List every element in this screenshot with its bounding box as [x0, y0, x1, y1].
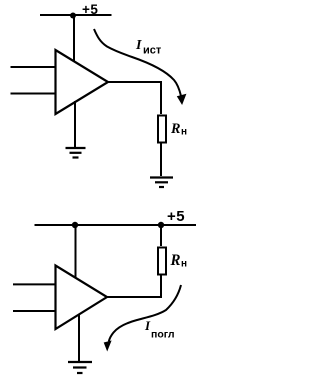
wire: resistor to ground (top)	[160, 143, 162, 176]
current arrow I_ист	[94, 29, 181, 96]
wire: input 2 (top gate)	[11, 93, 56, 95]
svg-text:I: I	[135, 38, 142, 53]
resistor R2 (pull-up, bottom)	[158, 248, 166, 275]
svg-text:+5: +5	[167, 208, 185, 225]
svg-text:I: I	[144, 318, 151, 333]
wire: gate ground lead (bottom)	[78, 314, 80, 361]
svg-text:н: н	[181, 259, 187, 270]
svg-text:+5: +5	[82, 2, 98, 17]
wire: input 2 (bottom gate)	[13, 310, 55, 312]
op-amp U1 (top gate triangle)	[56, 50, 109, 114]
wire: supply lead into gate (bottom)	[75, 225, 77, 278]
wire: output of bottom gate	[107, 296, 162, 298]
wire: pull-up resistor lead from rail (bottom)	[160, 225, 162, 246]
wire: supply lead into gate (top)	[73, 15, 75, 63]
wire: output of top gate to load	[108, 82, 161, 114]
node: junction dot right (bottom rail)	[158, 222, 164, 228]
ground (top gate)	[66, 148, 86, 158]
wire: input 1 (bottom gate)	[13, 283, 55, 285]
node: junction dot left (bottom rail)	[72, 222, 78, 228]
svg-text:R: R	[170, 252, 181, 269]
svg-text:погл: погл	[151, 329, 175, 341]
node: junction dot on top +5 rail	[70, 13, 76, 19]
svg-text:R: R	[170, 121, 180, 137]
svg-text:ист: ист	[143, 44, 162, 56]
wire: +5 rail bottom diagram	[35, 224, 197, 226]
current arrow I_погл	[109, 285, 181, 342]
wire: input 1 (top gate)	[11, 66, 56, 68]
resistor R1 (load, top)	[158, 116, 166, 143]
ground (bottom gate)	[68, 362, 92, 373]
wire: gate ground lead (top)	[74, 101, 76, 147]
op-amp U2 (bottom gate triangle)	[56, 266, 108, 330]
wire: +5 rail top diagram	[40, 14, 112, 16]
svg-text:н: н	[181, 127, 187, 138]
wire: resistor to output node (bottom)	[160, 275, 162, 297]
ground (load, top)	[150, 178, 173, 188]
